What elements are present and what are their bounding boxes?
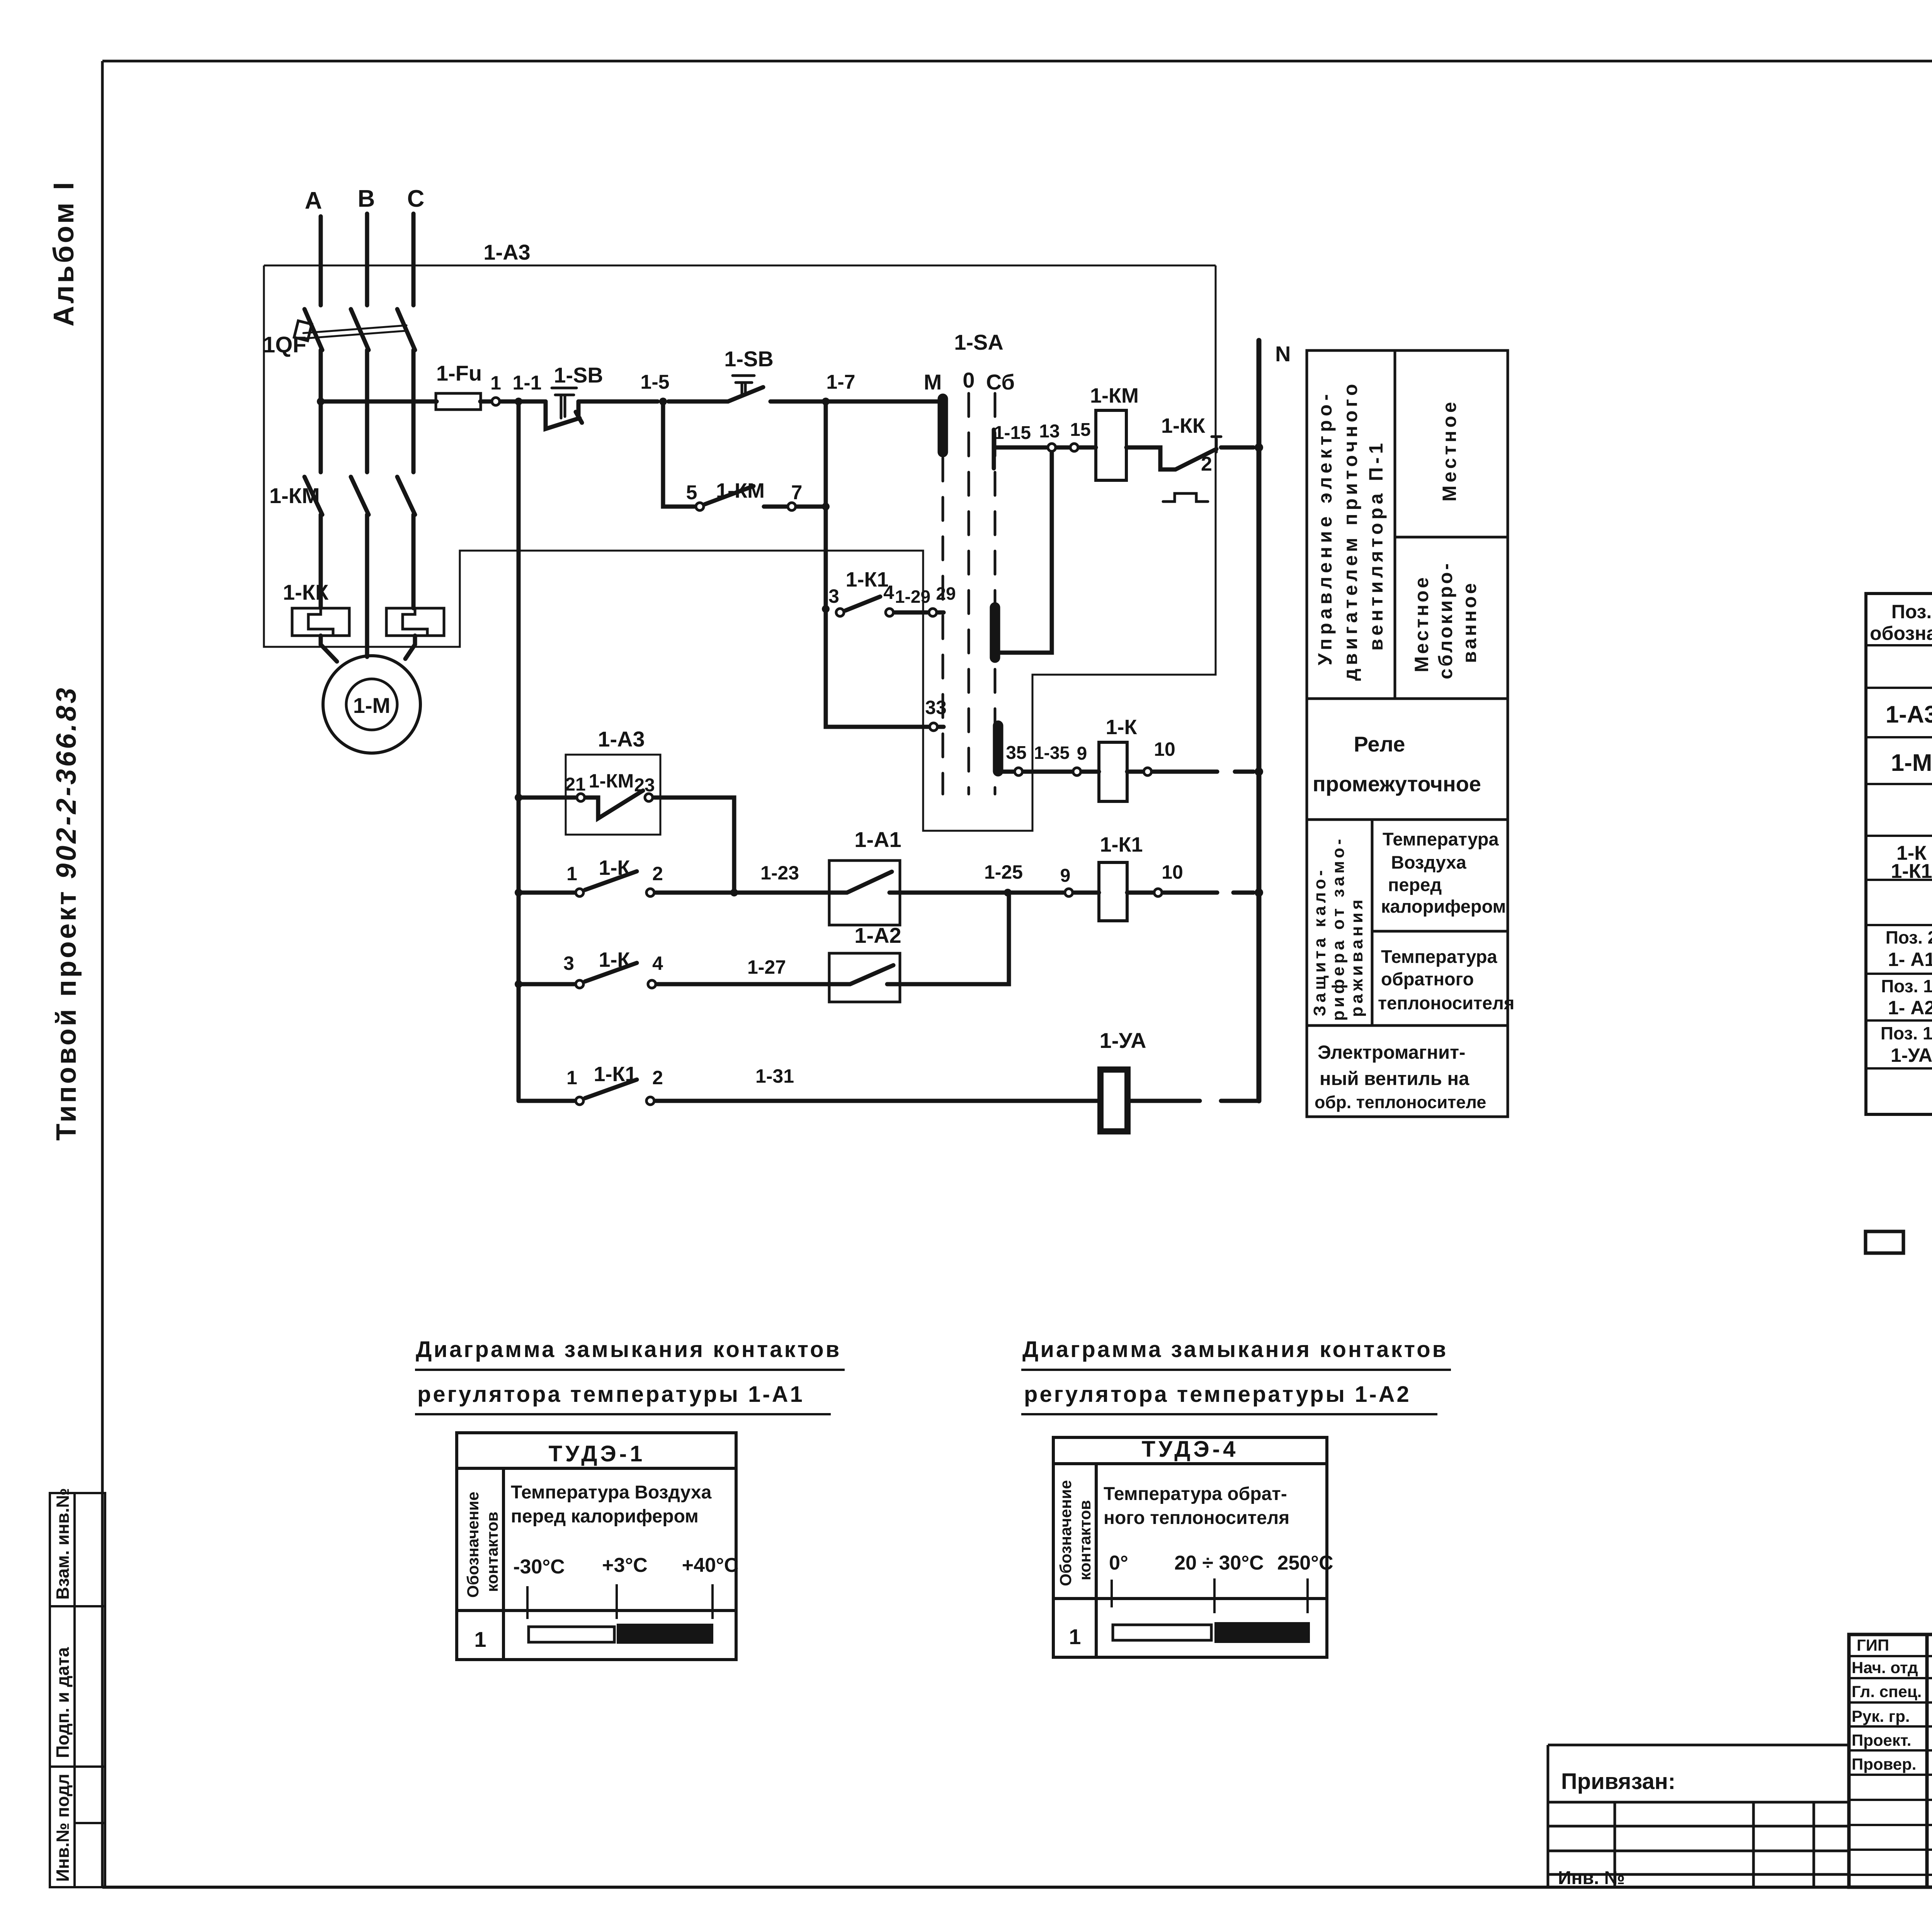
svg-text:Температура Воздуха: Температура Воздуха bbox=[511, 1482, 712, 1503]
svg-text:1-КМ: 1-КМ bbox=[1090, 384, 1139, 407]
svg-text:ГИП: ГИП bbox=[1857, 1636, 1889, 1654]
svg-text:1-К: 1-К bbox=[1106, 716, 1138, 739]
svg-text:ТУДЭ-4: ТУДЭ-4 bbox=[1142, 1437, 1239, 1462]
svg-text:1-КК: 1-КК bbox=[283, 580, 329, 604]
svg-text:4: 4 bbox=[652, 952, 663, 974]
svg-text:1-А3: 1-А3 bbox=[598, 727, 645, 751]
svg-text:1-К1: 1-К1 bbox=[594, 1063, 636, 1086]
svg-text:23: 23 bbox=[634, 775, 655, 796]
svg-text:1-23: 1-23 bbox=[760, 862, 799, 884]
svg-text:Нач. отд: Нач. отд bbox=[1852, 1658, 1918, 1677]
svg-text:+3°С: +3°С bbox=[602, 1554, 648, 1577]
svg-text:М: М bbox=[924, 370, 942, 394]
svg-text:рифера от замо-: рифера от замо- bbox=[1329, 836, 1348, 1021]
svg-text:1-29: 1-29 bbox=[895, 587, 930, 607]
svg-text:35: 35 bbox=[1006, 743, 1026, 763]
svg-text:Проект.: Проект. bbox=[1852, 1731, 1911, 1749]
svg-text:контактов: контактов bbox=[483, 1512, 501, 1592]
svg-text:1- А2: 1- А2 bbox=[1888, 997, 1932, 1019]
svg-text:1-К1: 1-К1 bbox=[845, 568, 888, 591]
svg-text:15: 15 bbox=[1070, 420, 1090, 440]
svg-text:29: 29 bbox=[936, 583, 956, 604]
svg-text:1-К: 1-К bbox=[599, 856, 631, 879]
svg-text:1: 1 bbox=[566, 863, 577, 884]
svg-text:1-УА: 1-УА bbox=[1100, 1028, 1146, 1053]
svg-text:1-КМ: 1-КМ bbox=[269, 483, 320, 508]
svg-text:1-SB: 1-SB bbox=[724, 347, 774, 371]
svg-text:1-Fu: 1-Fu bbox=[436, 361, 482, 385]
svg-text:сблокиро-: сблокиро- bbox=[1435, 561, 1456, 679]
svg-text:250°С: 250°С bbox=[1277, 1552, 1333, 1574]
svg-text:1-КМ: 1-КМ bbox=[589, 770, 634, 792]
svg-text:10: 10 bbox=[1162, 861, 1183, 883]
svg-text:Обозначение: Обозначение bbox=[464, 1492, 482, 1598]
svg-text:1-SA: 1-SA bbox=[954, 330, 1003, 354]
svg-text:1-М: 1-М bbox=[1891, 750, 1932, 776]
svg-text:1-К1: 1-К1 bbox=[1891, 860, 1932, 883]
svg-text:1-А3: 1-А3 bbox=[1886, 701, 1932, 728]
svg-text:ванное: ванное bbox=[1459, 581, 1480, 663]
svg-text:раживания: раживания bbox=[1347, 896, 1366, 1017]
svg-text:контактов: контактов bbox=[1076, 1500, 1094, 1580]
svg-text:20 ÷ 30°С: 20 ÷ 30°С bbox=[1174, 1552, 1264, 1574]
svg-text:Реле: Реле bbox=[1354, 732, 1405, 756]
svg-text:2: 2 bbox=[652, 1067, 663, 1088]
svg-text:1-27: 1-27 bbox=[747, 956, 786, 978]
svg-text:ТУДЭ-1: ТУДЭ-1 bbox=[549, 1441, 646, 1466]
svg-text:обознач.: обознач. bbox=[1870, 622, 1932, 644]
svg-text:13: 13 bbox=[1039, 421, 1060, 442]
svg-text:1-7: 1-7 bbox=[826, 371, 855, 393]
svg-text:1-15: 1-15 bbox=[994, 423, 1031, 443]
svg-text:1-УА: 1-УА bbox=[1891, 1044, 1932, 1066]
svg-text:1-SB: 1-SB bbox=[554, 363, 603, 387]
svg-text:Инв. №: Инв. № bbox=[1558, 1868, 1625, 1888]
svg-text:5: 5 bbox=[686, 481, 697, 504]
svg-text:В: В bbox=[358, 185, 375, 212]
svg-text:1-А2: 1-А2 bbox=[854, 923, 901, 947]
svg-text:Местное: Местное bbox=[1439, 399, 1460, 502]
svg-text:3: 3 bbox=[563, 952, 574, 974]
svg-text:1-1: 1-1 bbox=[512, 372, 541, 394]
svg-text:3: 3 bbox=[828, 585, 839, 607]
svg-text:1-М: 1-М bbox=[353, 693, 390, 718]
svg-text:вентилятора П-1: вентилятора П-1 bbox=[1365, 440, 1387, 651]
svg-text:Температура обрат-: Температура обрат- bbox=[1104, 1484, 1287, 1504]
svg-text:Альбом I: Альбом I bbox=[48, 180, 80, 327]
svg-text:А: А bbox=[305, 187, 322, 214]
svg-text:1-35: 1-35 bbox=[1034, 743, 1070, 763]
svg-text:Подп. и дата: Подп. и дата bbox=[53, 1647, 73, 1758]
svg-text:Местное: Местное bbox=[1411, 575, 1432, 672]
svg-text:Температура: Температура bbox=[1381, 946, 1497, 967]
svg-text:обратного: обратного bbox=[1381, 969, 1474, 989]
svg-text:Поз.: Поз. bbox=[1891, 601, 1932, 622]
svg-text:1- А1: 1- А1 bbox=[1888, 949, 1932, 970]
svg-text:7: 7 bbox=[791, 481, 803, 504]
svg-text:перед калорифером: перед калорифером bbox=[511, 1506, 699, 1527]
svg-text:1: 1 bbox=[1069, 1624, 1081, 1649]
svg-text:Гл. спец.: Гл. спец. bbox=[1852, 1682, 1922, 1701]
svg-text:-30°С: -30°С bbox=[513, 1556, 565, 1578]
svg-text:1: 1 bbox=[474, 1627, 486, 1651]
svg-text:ного теплоносителя: ного теплоносителя bbox=[1104, 1508, 1289, 1528]
svg-text:Рук. гр.: Рук. гр. bbox=[1852, 1707, 1910, 1725]
svg-text:1: 1 bbox=[566, 1067, 577, 1088]
svg-text:33: 33 bbox=[925, 697, 947, 718]
svg-text:1-31: 1-31 bbox=[755, 1065, 794, 1087]
svg-text:Провер.: Провер. bbox=[1852, 1755, 1916, 1773]
svg-text:обр. теплоносителе: обр. теплоносителе bbox=[1315, 1092, 1486, 1112]
svg-text:1-25: 1-25 bbox=[984, 861, 1023, 883]
svg-text:Температура: Температура bbox=[1383, 829, 1499, 849]
svg-text:9: 9 bbox=[1077, 743, 1087, 764]
svg-text:N: N bbox=[1275, 342, 1291, 366]
svg-text:1-К: 1-К bbox=[599, 948, 631, 971]
svg-text:перед: перед bbox=[1388, 874, 1442, 895]
svg-text:Инв.№ подл: Инв.№ подл bbox=[53, 1774, 73, 1882]
svg-text:ный вентиль на: ный вентиль на bbox=[1320, 1068, 1469, 1089]
svg-text:Диаграмма замыкания контакто: Диаграмма замыкания контактов bbox=[1022, 1337, 1448, 1362]
svg-text:9: 9 bbox=[1060, 866, 1071, 886]
svg-text:Взам. инв.№: Взам. инв.№ bbox=[53, 1488, 73, 1600]
svg-text:1-А1: 1-А1 bbox=[854, 827, 901, 852]
svg-text:Сб: Сб bbox=[986, 370, 1015, 394]
svg-text:4: 4 bbox=[883, 582, 894, 603]
svg-text:Типовой проект 902-2-366.83: Типовой проект 902-2-366.83 bbox=[51, 685, 82, 1141]
svg-text:Управление электро-: Управление электро- bbox=[1314, 390, 1336, 665]
svg-text:калорифером: калорифером bbox=[1381, 896, 1506, 917]
svg-text:2: 2 bbox=[1201, 453, 1212, 475]
svg-text:+40°С: +40°С bbox=[682, 1554, 739, 1577]
svg-text:0: 0 bbox=[963, 368, 975, 392]
svg-text:Электромагнит-: Электромагнит- bbox=[1318, 1042, 1465, 1063]
svg-text:промежуточное: промежуточное bbox=[1313, 772, 1481, 796]
svg-text:регулятора температуры 1-А1: регулятора температуры 1-А1 bbox=[417, 1382, 804, 1407]
svg-text:0°: 0° bbox=[1109, 1552, 1128, 1574]
svg-text:1-К1: 1-К1 bbox=[1100, 833, 1143, 856]
svg-text:10: 10 bbox=[1154, 738, 1175, 760]
svg-text:регулятора температуры 1-А2: регулятора температуры 1-А2 bbox=[1024, 1382, 1411, 1407]
svg-text:2: 2 bbox=[652, 863, 663, 884]
svg-text:1QF: 1QF bbox=[263, 332, 306, 357]
svg-text:1-А3: 1-А3 bbox=[483, 240, 530, 264]
svg-text:Поз. 2: Поз. 2 bbox=[1886, 927, 1932, 947]
svg-text:1: 1 bbox=[490, 372, 501, 394]
svg-text:Привязан:: Привязан: bbox=[1561, 1769, 1675, 1794]
svg-text:Защита кало-: Защита кало- bbox=[1310, 867, 1329, 1016]
svg-text:Диаграмма замыкания контакто: Диаграмма замыкания контактов bbox=[416, 1337, 841, 1362]
svg-text:Обозначение: Обозначение bbox=[1056, 1480, 1075, 1586]
svg-text:двигателем приточного: двигателем приточного bbox=[1340, 381, 1361, 681]
svg-text:С: С bbox=[407, 185, 425, 212]
svg-text:1-5: 1-5 bbox=[640, 371, 669, 393]
svg-text:1-КК: 1-КК bbox=[1161, 414, 1206, 437]
svg-text:1-КМ: 1-КМ bbox=[716, 479, 765, 502]
svg-text:Поз. 16: Поз. 16 bbox=[1881, 1023, 1932, 1043]
svg-text:Поз. 11: Поз. 11 bbox=[1881, 976, 1932, 996]
svg-text:21: 21 bbox=[565, 774, 585, 795]
svg-text:Воздуха: Воздуха bbox=[1391, 852, 1467, 872]
svg-text:теплоносителя: теплоносителя bbox=[1378, 993, 1514, 1013]
